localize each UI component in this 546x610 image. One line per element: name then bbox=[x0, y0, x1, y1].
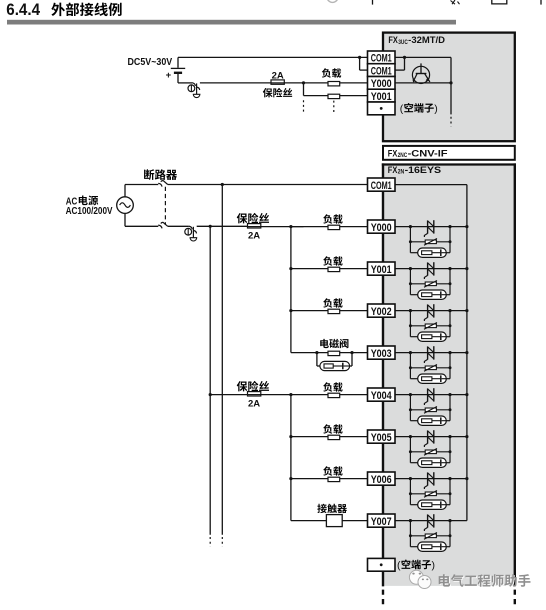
svg-text:): ) bbox=[434, 103, 438, 115]
svg-text:Y003: Y003 bbox=[371, 348, 392, 360]
battery plus label bbox=[166, 70, 172, 81]
label 电磁阀 bbox=[320, 339, 348, 348]
ground G1 bbox=[178, 83, 200, 98]
label 2A (F2) bbox=[248, 231, 260, 242]
wire AC to breaker bottom bbox=[125, 213, 158, 226]
svg-text:-CNV-IF: -CNV-IF bbox=[408, 149, 448, 159]
svg-text:Y006: Y006 bbox=[371, 474, 392, 486]
varistor Y002 bbox=[409, 311, 452, 337]
svg-text:(: ( bbox=[400, 103, 404, 115]
svg-text:): ) bbox=[432, 560, 436, 572]
neutral bus B0 bbox=[209, 226, 211, 546]
terminal COM1 (FX3UC) bbox=[368, 51, 396, 65]
varistor Y007 bbox=[409, 521, 452, 547]
load LD1 (Y001) bbox=[304, 94, 368, 98]
continuation dots below branch bbox=[304, 100, 334, 114]
label 负载 (Y002) bbox=[323, 298, 342, 307]
svg-text:Y004: Y004 bbox=[371, 390, 393, 402]
svg-text:2A: 2A bbox=[248, 231, 260, 242]
svg-text:-16EYS: -16EYS bbox=[405, 165, 442, 175]
snubber RC Y005 bbox=[410, 458, 450, 467]
load LD0 (Y000) bbox=[304, 82, 368, 86]
label 保险丝 (F3) bbox=[237, 381, 269, 391]
circuit breaker CB1 bbox=[158, 181, 168, 229]
svg-text:Y000: Y000 bbox=[371, 222, 392, 234]
section title 外部接线例 bbox=[51, 3, 121, 17]
contactor K1 (Y007) bbox=[326, 515, 342, 527]
external COM1 jumper junction bbox=[358, 56, 368, 70]
load LD (Y006) bbox=[291, 477, 368, 481]
node tap Y001 bbox=[289, 267, 292, 270]
output cell Y003 wire bbox=[395, 351, 469, 354]
wire breaker to COM1 bbox=[168, 184, 368, 186]
varistor Y000 bbox=[409, 227, 452, 253]
snubber RC Y004 bbox=[410, 416, 450, 425]
varistor Y006 bbox=[409, 479, 452, 505]
node tap Y006 bbox=[289, 477, 292, 480]
label 负载 (Y001) bbox=[323, 256, 342, 265]
snubber RC Y007 bbox=[410, 542, 450, 551]
ground G2 bbox=[185, 226, 197, 241]
section number 6.4.4 bbox=[6, 0, 40, 19]
triac Y004 bbox=[424, 388, 433, 405]
varistor Y005 bbox=[409, 437, 452, 463]
terminal Y004 (FX2N-16EYS) bbox=[368, 388, 396, 402]
load bus B2b bbox=[290, 395, 292, 521]
remnant symbol bbox=[451, 0, 460, 4]
solenoid surge suppressor branch bbox=[315, 351, 353, 371]
wire battery to COM1 bbox=[178, 56, 368, 58]
triac Y001 bbox=[424, 262, 433, 279]
label 负载 (Y004) bbox=[323, 382, 342, 391]
label 保险丝 (F2) bbox=[237, 213, 269, 223]
terminal spare (FX2N-16EYS) bbox=[368, 558, 396, 571]
label (空端子) top bbox=[400, 103, 438, 115]
terminal spare (FX3UC) bbox=[368, 102, 396, 115]
svg-text:FX: FX bbox=[388, 165, 398, 175]
wire ground to fuse F2 bbox=[197, 225, 248, 227]
AC source label bbox=[66, 196, 98, 208]
remnant wire bbox=[372, 0, 374, 5]
label FX3UC-32MT/D bbox=[388, 35, 445, 46]
label (空端子) bottom bbox=[397, 560, 435, 572]
svg-text:2A: 2A bbox=[248, 399, 260, 410]
svg-text:6.4.4: 6.4.4 bbox=[6, 0, 40, 19]
remnant terminal box bbox=[492, 0, 507, 4]
svg-text:COM1: COM1 bbox=[371, 65, 392, 77]
wire ground to fuse bbox=[200, 82, 304, 84]
wire AC to breaker top bbox=[125, 185, 158, 197]
triac Y000 bbox=[424, 220, 433, 237]
svg-text:FX: FX bbox=[388, 35, 398, 45]
node load bus B tap bbox=[289, 393, 292, 396]
node phase bus tap bbox=[221, 183, 224, 186]
terminal Y007 (FX2N-16EYS) bbox=[368, 514, 396, 528]
node tap Y002 bbox=[289, 309, 292, 312]
terminal Y000 (FX2N-16EYS) bbox=[368, 220, 396, 234]
svg-text:Y000: Y000 bbox=[371, 78, 392, 90]
fuse F1 2A bbox=[271, 80, 284, 84]
load LD (Y001) bbox=[291, 267, 368, 271]
interface module FX2NC-CNV-IF body bbox=[383, 146, 515, 160]
svg-text:+: + bbox=[166, 70, 172, 81]
node junction to Y001 branch bbox=[302, 81, 305, 95]
load LD (Y002) bbox=[291, 309, 368, 313]
terminal COM1 (FX2N-16EYS) bbox=[368, 178, 396, 192]
svg-text:FX: FX bbox=[388, 149, 398, 159]
output cell Y002 wire bbox=[395, 309, 469, 312]
snubber RC Y002 bbox=[410, 332, 450, 341]
fuse F2 2A bbox=[248, 224, 304, 228]
svg-text:3UC: 3UC bbox=[398, 39, 408, 46]
continuation dots internal bus bbox=[450, 117, 452, 127]
output module FX2N-16EYS body bbox=[382, 163, 516, 586]
triac Y005 bbox=[424, 430, 433, 447]
output cell Y001 wire bbox=[395, 267, 469, 270]
wire bus to Y007 bbox=[291, 520, 368, 522]
remnant arc of previous figure bbox=[327, 0, 338, 2]
internal COM1 jumper bbox=[395, 56, 451, 70]
phase bus B1 bbox=[221, 185, 223, 547]
fuse F3 2A (Y004) bbox=[209, 392, 304, 397]
terminal Y003 (FX2N-16EYS) bbox=[368, 346, 396, 360]
varistor Y003 bbox=[409, 353, 452, 379]
wire Y000 to transistor bbox=[395, 82, 451, 84]
label 接触器 bbox=[317, 504, 347, 513]
node tap Y005 bbox=[289, 435, 292, 438]
wire breaker to ground G2 bbox=[168, 225, 189, 227]
AC source S1 bbox=[117, 197, 134, 214]
svg-text:COM1: COM1 bbox=[371, 53, 392, 65]
battery V1 bbox=[171, 57, 185, 83]
remnant wire bbox=[540, 0, 542, 5]
load LD (Y005) bbox=[291, 435, 368, 439]
label 2A (F3) bbox=[248, 399, 260, 410]
svg-text:Y001: Y001 bbox=[371, 91, 392, 103]
watermark text 电气工程师助手 bbox=[439, 574, 532, 587]
svg-text:2NC: 2NC bbox=[398, 152, 408, 159]
label 负载 (Y006) bbox=[323, 466, 342, 475]
svg-text:Y005: Y005 bbox=[371, 432, 392, 444]
load bus B2a bbox=[290, 227, 292, 353]
triac Y003 bbox=[424, 346, 433, 363]
label 断路器 bbox=[144, 169, 177, 180]
label 2A bbox=[272, 70, 284, 81]
internal collector bus wire bbox=[449, 57, 452, 114]
border continuation dashes bbox=[383, 590, 515, 605]
common line bbox=[466, 185, 468, 521]
node neutral bus tap bbox=[209, 225, 212, 228]
load LD2 (Y000) bbox=[291, 225, 368, 229]
COM1 common wire bbox=[395, 184, 467, 186]
label 保险丝 bbox=[263, 88, 292, 98]
label FX2NC-CNV-IF bbox=[388, 149, 448, 160]
snubber RC Y003 bbox=[410, 374, 450, 383]
triac Y006 bbox=[424, 472, 433, 489]
svg-text:Y007: Y007 bbox=[371, 516, 392, 528]
svg-text:(: ( bbox=[397, 560, 401, 572]
output cell Y007 wire bbox=[395, 519, 467, 522]
svg-text:DC5V~30V: DC5V~30V bbox=[128, 57, 173, 68]
terminal Y001 (FX3UC) bbox=[368, 89, 396, 103]
terminal Y002 (FX2N-16EYS) bbox=[368, 304, 396, 318]
svg-text:Y002: Y002 bbox=[371, 306, 392, 318]
svg-text:2N: 2N bbox=[398, 169, 405, 176]
load LD4 (Y004) bbox=[304, 393, 368, 397]
terminal Y006 (FX2N-16EYS) bbox=[368, 472, 396, 486]
snubber RC Y000 bbox=[410, 248, 450, 257]
svg-text:COM1: COM1 bbox=[371, 180, 392, 192]
solenoid valve coil (Y003) bbox=[328, 351, 340, 355]
title underline bar bbox=[7, 20, 456, 25]
terminal Y000 (FX3UC) bbox=[368, 77, 396, 91]
output cell Y004 wire bbox=[395, 393, 469, 396]
terminal COM1 (FX3UC) bbox=[368, 64, 396, 78]
label FX2N-16EYS bbox=[388, 165, 441, 176]
varistor Y004 bbox=[409, 395, 452, 421]
label 负载 (Y000) bbox=[323, 214, 342, 223]
svg-text:Y001: Y001 bbox=[371, 264, 392, 276]
svg-text:-32MT/D: -32MT/D bbox=[408, 35, 445, 45]
label 负载 (Y005) bbox=[323, 424, 342, 433]
watermark logo bbox=[409, 570, 431, 588]
output cell Y006 wire bbox=[395, 477, 469, 480]
svg-text:2A: 2A bbox=[272, 70, 284, 81]
output cell Y005 wire bbox=[395, 435, 469, 438]
DC supply label DC5V~30V bbox=[128, 57, 173, 68]
terminal Y005 (FX2N-16EYS) bbox=[368, 430, 396, 444]
svg-text:AC100/200V: AC100/200V bbox=[66, 206, 113, 217]
snubber RC Y006 bbox=[410, 500, 450, 509]
PLC module FX3UC-32MT/D body bbox=[383, 33, 515, 142]
snubber RC Y001 bbox=[410, 290, 450, 299]
output transistor Q1 bbox=[412, 63, 430, 83]
node load bus A tap bbox=[289, 225, 292, 228]
label 负载 bbox=[322, 68, 341, 77]
varistor Y001 bbox=[409, 269, 452, 295]
wire bus to Y003 bbox=[291, 352, 368, 354]
terminal Y001 (FX2N-16EYS) bbox=[368, 262, 396, 276]
triac Y007 bbox=[424, 514, 433, 531]
output cell Y000 wire bbox=[395, 225, 469, 228]
triac Y002 bbox=[424, 304, 433, 321]
